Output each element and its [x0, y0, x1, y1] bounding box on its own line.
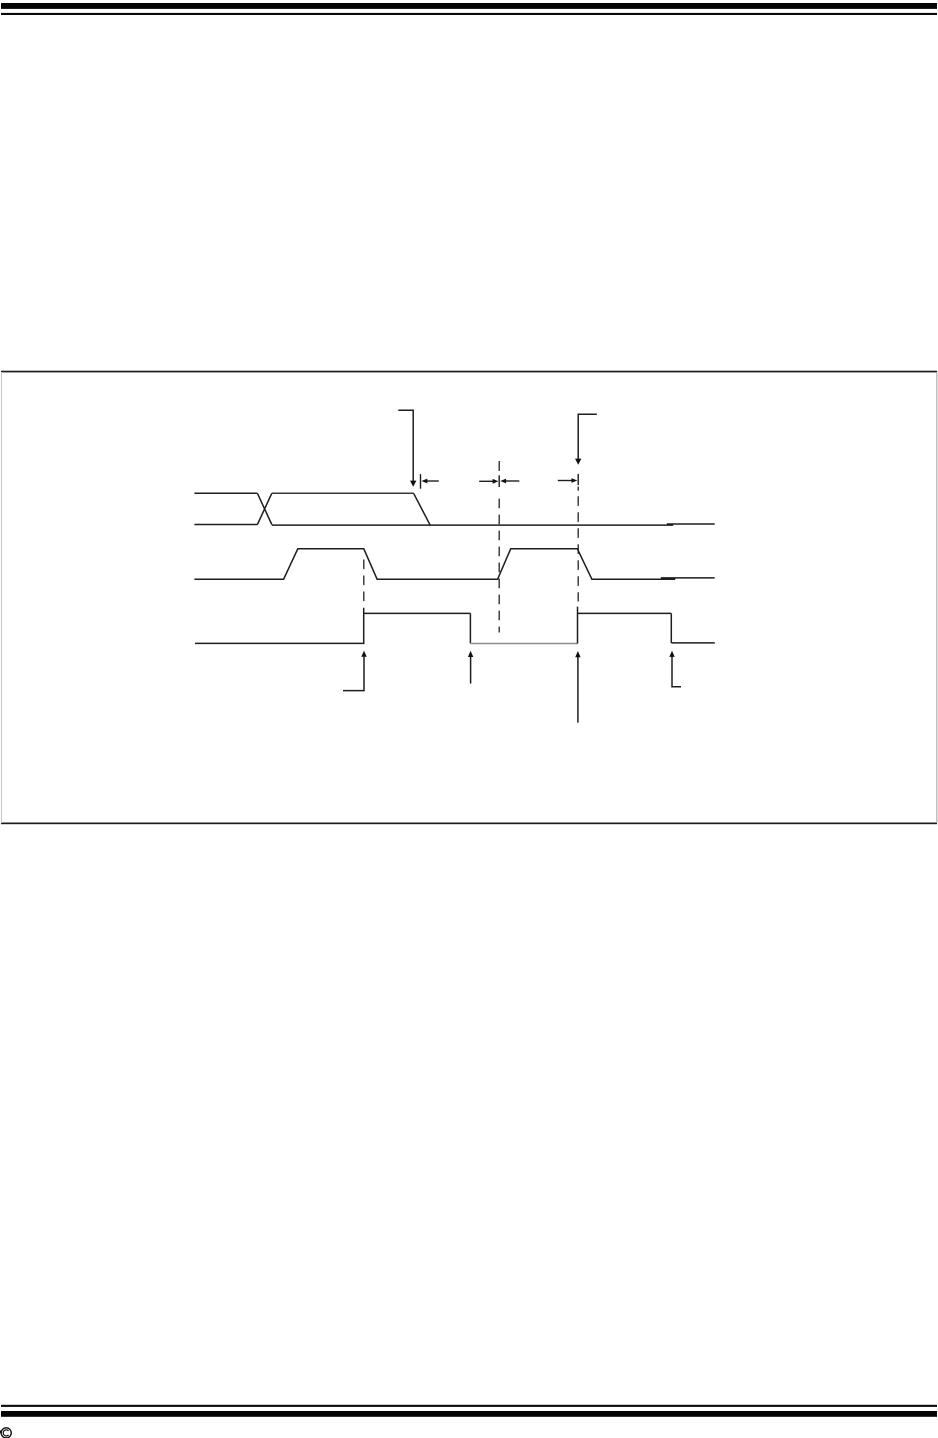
bus bottom rail right overlap segment	[667, 523, 715, 525]
clock signal waveform	[194, 549, 675, 579]
enable signal high rail 2	[578, 612, 672, 614]
figure box top border	[1, 371, 937, 373]
middle dimension left-pointing arrow	[504, 480, 519, 482]
copyright mark	[1, 1428, 11, 1438]
bus bottom rail	[272, 524, 673, 526]
up arrow 2 head	[468, 651, 473, 657]
enable signal falling edge 1	[469, 613, 471, 643]
bus signal bottom-left rail	[194, 524, 257, 526]
clipped glyph fragment at page edge	[0, 1430, 1, 1433]
up arrow 4 shaft and right bracket	[672, 655, 681, 687]
bus crossover X	[257, 493, 271, 524]
figure box bottom border	[1, 823, 937, 825]
header thin rule	[1, 13, 937, 15]
enable signal rising edge 2	[577, 607, 579, 644]
dimension tick bar at x=420.5	[420, 474, 422, 489]
dimension arrow pointing right at x=578	[558, 480, 573, 482]
figure box right border	[936, 372, 937, 823]
middle dimension right-pointing arrow	[479, 480, 494, 482]
middle dashed vertical line x=499 body	[498, 499, 500, 633]
dashed vertical line x=364	[363, 560, 365, 603]
enable signal low-left rail	[195, 642, 364, 644]
enable signal rising edge 1	[363, 608, 365, 644]
bus valid top rail	[272, 492, 414, 494]
callout flag t1 (left)	[398, 410, 413, 482]
enable signal low-right rail	[671, 642, 715, 644]
enable signal high rail 1	[364, 612, 471, 614]
up arrow 1 shaft and left bracket	[343, 655, 364, 691]
callout flag t2 (right)	[578, 414, 597, 460]
enable signal low-mid rail	[470, 643, 577, 645]
callout t2 down arrowhead	[575, 459, 581, 465]
dashed vertical line x=578 top dash	[577, 487, 579, 491]
middle dimension tick bar x=499	[498, 475, 500, 487]
clock signal right overlap segment	[661, 577, 715, 579]
enable signal falling edge 2	[670, 613, 672, 643]
up arrow 1 head	[361, 651, 366, 657]
up arrow 2 shaft	[470, 655, 472, 684]
middle dashed vertical line x=499 top dash	[498, 461, 500, 471]
callout t1 down arrowhead	[410, 481, 416, 487]
figure box left border	[1, 372, 2, 823]
bus signal top-left rail	[194, 492, 257, 494]
up arrow 3 shaft	[577, 655, 579, 723]
dimension tick bar x=578	[577, 474, 579, 485]
header thick rule	[1, 3, 937, 9]
bus falling edge	[414, 493, 431, 525]
dashed vertical line x=578 body	[577, 496, 579, 601]
up arrow 4 head	[669, 651, 674, 657]
dimension arrow pointing left at tick 420	[425, 480, 439, 482]
up arrow 3 head	[575, 651, 580, 657]
footer thin rule	[1, 1405, 937, 1407]
footer thick rule	[1, 1411, 937, 1417]
